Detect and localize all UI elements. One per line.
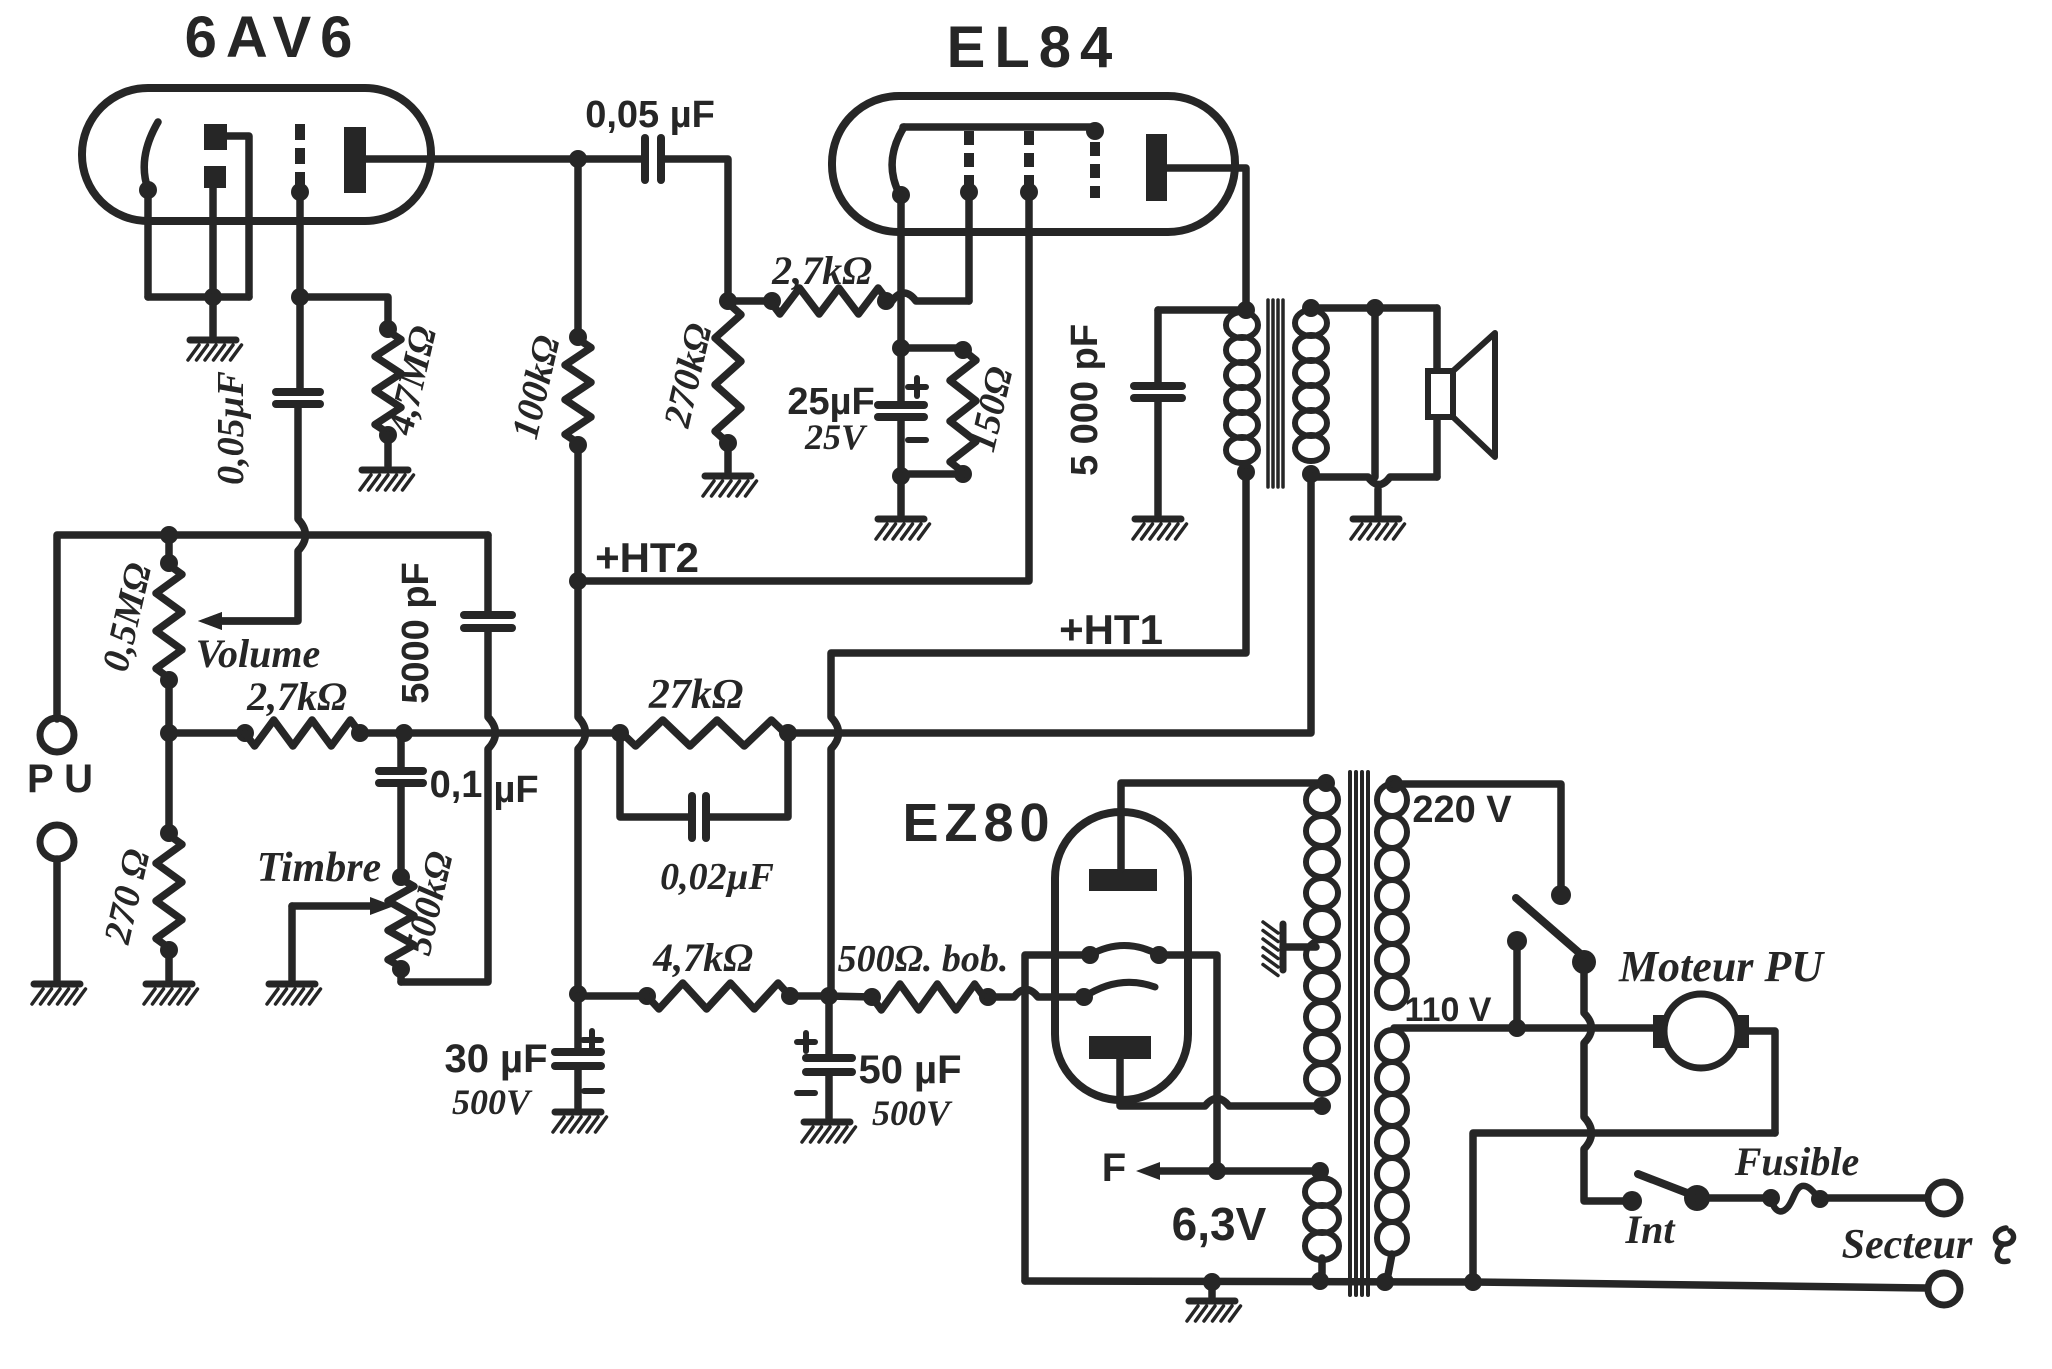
- terminal Secteur top: [1928, 1182, 1960, 1214]
- fuse Fusible: [1762, 1189, 1780, 1207]
- wire F arrow: [1160, 1167, 1217, 1175]
- wire 270R to ground: [165, 950, 173, 980]
- svg-text:6,3V: 6,3V: [1172, 1198, 1267, 1250]
- wire pot bottom to bus: [165, 680, 173, 733]
- terminal PU hot: [40, 718, 74, 752]
- wire 4,7k to HT1 node: [790, 992, 829, 1000]
- svg-text:25V: 25V: [804, 417, 868, 457]
- wire coupling cap to 270k: [664, 159, 728, 299]
- svg-text:µF: µF: [493, 769, 538, 811]
- ground 4,7M: [362, 467, 408, 474]
- svg-text:6AV6: 6AV6: [185, 5, 362, 70]
- EL84 g1 dashed: [964, 131, 974, 145]
- node F junction: [1208, 1162, 1226, 1180]
- resistor 2,7k mixer: [236, 724, 254, 742]
- svg-text:500V: 500V: [872, 1093, 953, 1133]
- wire timbre wiper to ground: [288, 906, 296, 980]
- ground timbre wiper: [269, 981, 315, 988]
- ground 6AV6 cathode: [190, 337, 236, 344]
- transformer 6,3V winding: [1311, 1162, 1329, 1180]
- capacitor 5000pF plate snubber: [1158, 306, 1246, 314]
- wire mains bottom rail: [1025, 1281, 1927, 1288]
- wire 220V tap to selector: [1394, 784, 1561, 888]
- ground PU: [34, 981, 80, 988]
- resistor 27k feedback: [622, 720, 785, 746]
- terminal Secteur bottom: [1928, 1273, 1960, 1305]
- wire 150R bottom: [954, 465, 972, 483]
- svg-text:+HT1: +HT1: [1059, 606, 1163, 653]
- EZ80 filament lower arc: [1084, 982, 1155, 997]
- ground EL84 cathode: [878, 516, 924, 523]
- capacitor 50uF reservoir: [825, 996, 833, 1054]
- wire grid cap down, hop over input rail, to volume wiper: [216, 407, 306, 621]
- svg-text:EL84: EL84: [947, 15, 1122, 80]
- wire input rail: [57, 535, 488, 719]
- wire motor right to rail: [1748, 1031, 1775, 1133]
- resistor 270k grid return: [715, 303, 741, 443]
- minus sign 50uF: [797, 1090, 815, 1096]
- wire choke to EZ80 filament, hop over return: [988, 990, 1084, 998]
- transformer OT core: [1266, 300, 1270, 487]
- switch Int lever: [1638, 1174, 1695, 1196]
- motor brush right: [1735, 1015, 1749, 1048]
- wire speaker ground stem: [1374, 489, 1382, 515]
- ground HV centre tap: [1280, 924, 1287, 970]
- speaker driver: [1428, 371, 1453, 417]
- svg-text:Int: Int: [1625, 1207, 1677, 1252]
- capacitor 0,05uF grid: [276, 388, 320, 396]
- wire motor return rail: [1473, 1133, 1775, 1281]
- switch Int pivot: [1684, 1185, 1710, 1211]
- wire EL84 cathode pin down: [897, 195, 905, 348]
- ground 50uF: [804, 1119, 850, 1126]
- wire 110V tap: [1394, 1024, 1655, 1032]
- ground 270k: [705, 473, 751, 480]
- speaker frame left: [1371, 308, 1379, 477]
- ground 30uF: [555, 1109, 601, 1116]
- svg-text:EZ80: EZ80: [902, 793, 1055, 853]
- svg-text:4,7kΩ: 4,7kΩ: [652, 935, 753, 980]
- svg-text:5 000 pF: 5 000 pF: [1064, 324, 1106, 476]
- svg-text:2,7kΩ: 2,7kΩ: [246, 674, 347, 719]
- wire 6AV6 cathode junction: [148, 293, 249, 301]
- speaker frame right: [1433, 308, 1441, 477]
- wire secondary bottom to speaker with ground dip: [1311, 477, 1437, 485]
- box branch 5000pF and timbre return: [484, 535, 492, 611]
- svg-text:220 V: 220 V: [1412, 789, 1512, 831]
- wire plate node down: [574, 159, 582, 339]
- wire +HT2 node down, hop over bus, to filter node: [578, 581, 586, 996]
- wire 100k to +HT2 node: [574, 443, 582, 581]
- wire 6AV6 cathode down: [144, 190, 152, 297]
- wire 270k to ground: [724, 443, 732, 472]
- plus sign 30uF: [589, 1031, 595, 1049]
- tube V1 6AV6 envelope: [82, 88, 431, 221]
- wire filament left return: [1025, 955, 1090, 1281]
- wire 500k bottom: [397, 969, 405, 982]
- EZ80 anode 1: [1089, 869, 1157, 891]
- switch Int contact: [1622, 1191, 1642, 1211]
- wire PU return to ground: [53, 859, 61, 980]
- wire Int to fuse: [1697, 1194, 1768, 1202]
- svg-text:Fusible: Fusible: [1734, 1139, 1859, 1184]
- 6AV6 diode plate upper: [204, 124, 227, 150]
- wire timbre wiper: [292, 902, 374, 910]
- svg-text:Timbre: Timbre: [257, 845, 381, 891]
- EL84 g3 dashed: [1086, 122, 1104, 140]
- transformer mains core: [1348, 772, 1352, 1295]
- svg-text:0,02µF: 0,02µF: [660, 856, 774, 898]
- wire 6AV6 plate output: [366, 155, 641, 163]
- svg-text:Moteur PU: Moteur PU: [1618, 942, 1825, 991]
- resistor 2,7k grid stopper: [763, 292, 781, 310]
- capacitor 0,02uF loop: [620, 733, 688, 817]
- wire EZ80 anode1 to HV top: [1121, 783, 1326, 869]
- plus sign 25uF: [914, 378, 920, 396]
- wire rail ground stem: [1208, 1282, 1216, 1297]
- wire 6AV6 upper diode plate to junction: [226, 136, 249, 297]
- wire EL84 plate to OT: [1167, 168, 1246, 308]
- potentiometer 0,5M volume: [160, 526, 178, 544]
- capacitor 25uF cathode bypass: [897, 348, 905, 401]
- transformer HV secondary: [1317, 774, 1335, 792]
- EL84 g2 dashed: [1024, 131, 1034, 145]
- wire 6AV6 grid to grid leak: [300, 297, 388, 327]
- wire cathode ground stem: [897, 476, 905, 515]
- capacitor 0,1uF timbre: [397, 733, 405, 767]
- EL84 internal cathode-g3 strap: [903, 123, 1095, 131]
- tube V3 EZ80 envelope: [1055, 812, 1188, 1100]
- wire 6AV6 lower diode plate down: [209, 188, 217, 297]
- svg-text:27kΩ: 27kΩ: [648, 672, 743, 718]
- wire ground stem: [209, 297, 217, 336]
- wire F to 6,3V winding: [1217, 1167, 1320, 1175]
- svg-text:500Ω. bob.: 500Ω. bob.: [838, 938, 1009, 980]
- svg-text:0,1: 0,1: [430, 764, 483, 806]
- tube V2 EL84 envelope: [832, 96, 1235, 232]
- 6AV6 diode plate lower: [204, 166, 226, 188]
- wire bus node to 270R: [165, 733, 173, 835]
- resistor 270R input return: [160, 824, 178, 842]
- ground 270R: [146, 981, 192, 988]
- wire HT2 filter node: [569, 985, 587, 1003]
- svg-text:0,05 µF: 0,05 µF: [585, 94, 715, 136]
- 6AV6 grid g1 dashed: [295, 124, 305, 140]
- minus sign 25uF: [908, 437, 926, 443]
- svg-text:F: F: [1102, 1146, 1126, 1190]
- ground speaker: [1353, 516, 1399, 523]
- wire volume wiper: [216, 617, 297, 625]
- svg-text:50 µF: 50 µF: [858, 1048, 961, 1092]
- svg-text:500V: 500V: [452, 1082, 533, 1122]
- wire HT1 node to choke: [829, 996, 872, 997]
- svg-text:Secteur: Secteur: [1842, 1222, 1973, 1268]
- wire 6AV6 grid down to coupling cap: [296, 192, 304, 390]
- ground mains rail: [1189, 1298, 1235, 1305]
- capacitor 0,05uF coupling: [641, 138, 649, 180]
- potentiometer 500k timbre: [392, 868, 410, 886]
- EZ80 anode 2: [1089, 1036, 1151, 1059]
- EL84 anode plate: [1146, 134, 1167, 201]
- selector pivot: [1572, 950, 1596, 974]
- 6AV6 cathode: [144, 122, 158, 189]
- selector contact 220V: [1551, 885, 1571, 905]
- svg-text:Volume: Volume: [196, 631, 320, 676]
- transformer mains primary: [1385, 775, 1403, 793]
- wire cathode node to 150R: [901, 344, 963, 352]
- wire 4,7M bottom to ground: [379, 426, 397, 444]
- 6AV6 anode plate: [344, 127, 366, 193]
- wire 2,7k to EL84 grid, hop over cathode lead: [888, 293, 969, 301]
- wire +HT2 to EL84 screen g2: [578, 192, 1029, 581]
- wire EL84 g1 pin: [965, 192, 973, 301]
- resistor 500R choke: [863, 988, 881, 1006]
- selector lever: [1516, 898, 1584, 957]
- svg-text:+HT2: +HT2: [595, 534, 699, 581]
- selector contact 110V: [1507, 931, 1527, 951]
- wire 270k node to 2,7k: [728, 297, 770, 305]
- transformer OT primary: [1237, 301, 1255, 319]
- wire OT primary bottom to +HT1: [831, 472, 1246, 994]
- wire HV centre tap: [1283, 943, 1316, 951]
- plus sign 50uF: [803, 1033, 809, 1051]
- svg-text:0,05µF: 0,05µF: [210, 371, 252, 485]
- EL84 cathode: [892, 127, 904, 193]
- resistor 150R cathode: [950, 350, 976, 472]
- signal bus to feedback tap: [785, 476, 1311, 733]
- resistor 4,7k filter: [638, 987, 656, 1005]
- svg-text:2,7kΩ: 2,7kΩ: [771, 248, 872, 293]
- svg-text:110 V: 110 V: [1405, 991, 1492, 1029]
- wire fuse to mains terminal: [1820, 1194, 1927, 1202]
- transformer OT secondary: [1302, 299, 1320, 317]
- minus sign 30uF: [584, 1088, 602, 1094]
- terminal PU return: [40, 825, 74, 859]
- ground 5000pF: [1135, 516, 1181, 523]
- signal bus middle: [360, 729, 622, 737]
- wire filament right to F: [1159, 955, 1217, 1171]
- svg-text:P U: P U: [27, 757, 93, 801]
- label secteur flourish: [1995, 1228, 2013, 1262]
- wire selector pivot down, hops over 110V and motor rail: [1584, 962, 1632, 1201]
- signal bus: [169, 729, 245, 737]
- resistor 100k plate load: [565, 339, 591, 443]
- motor Moteur PU: [1664, 994, 1738, 1068]
- svg-text:30 µF: 30 µF: [444, 1037, 547, 1081]
- wire EZ80 anode2 to HV bottom, hop over heater lead: [1120, 1059, 1322, 1106]
- EZ80 filament upper arc: [1090, 946, 1159, 956]
- EL84 g2 pin dot: [1020, 183, 1038, 201]
- capacitor 30uF filter: [574, 996, 582, 1048]
- speaker cone: [1453, 333, 1495, 457]
- resistor 4,7M grid leak: [375, 331, 401, 433]
- motor brush left: [1653, 1015, 1667, 1048]
- svg-text:5000 pF: 5000 pF: [395, 562, 437, 704]
- wire OT secondary top to speaker: [1311, 304, 1437, 312]
